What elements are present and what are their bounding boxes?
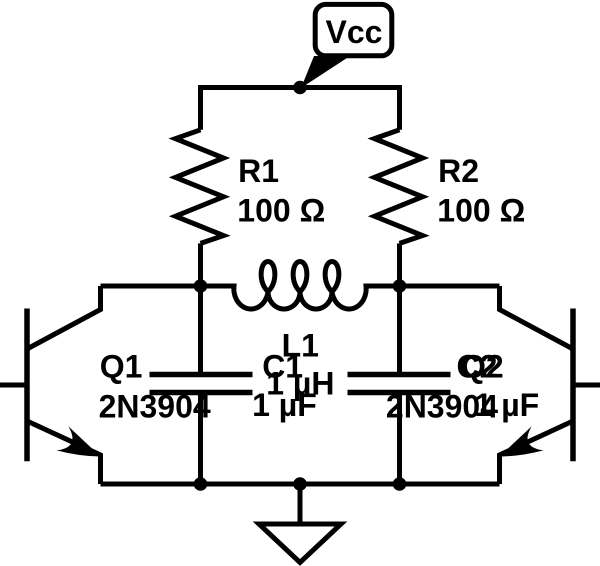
svg-text:100 Ω: 100 Ω — [237, 193, 325, 229]
svg-text:R2: R2 — [438, 153, 479, 189]
svg-text:100 Ω: 100 Ω — [437, 193, 525, 229]
svg-text:L1: L1 — [282, 328, 319, 364]
svg-text:Q2: Q2 — [461, 349, 504, 385]
svg-text:1 µH: 1 µH — [266, 365, 334, 401]
svg-text:Vcc: Vcc — [326, 14, 383, 50]
svg-text:Q1: Q1 — [100, 349, 143, 385]
svg-text:2N3904: 2N3904 — [99, 388, 211, 424]
svg-text:R1: R1 — [238, 153, 279, 189]
svg-text:1 µF: 1 µF — [475, 387, 540, 423]
